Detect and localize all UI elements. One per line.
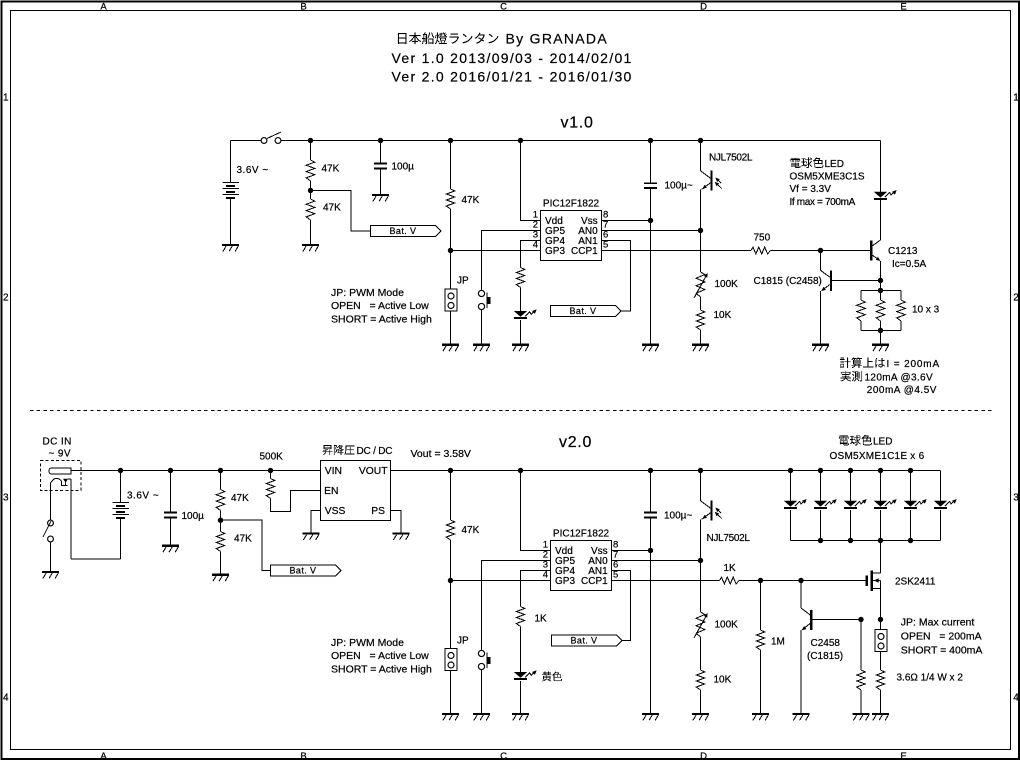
svg-text:2: 2 xyxy=(3,293,9,304)
svg-text:4: 4 xyxy=(1013,693,1019,704)
svg-text:E: E xyxy=(900,751,906,760)
svg-text:PS: PS xyxy=(371,506,385,517)
note text 電球色 LED (v1) xyxy=(790,157,844,170)
transistor Q3 C1815 current limit (v1) xyxy=(754,251,881,344)
wire jack tip to VIN rail (v2) xyxy=(71,470,320,472)
resistor 1K LED series (v2) xyxy=(516,607,547,673)
section heading v1.0 xyxy=(561,115,594,132)
svg-text:C: C xyxy=(500,2,507,13)
resistor 10K (v1) xyxy=(696,310,731,330)
resistor 47K upper divider (v2) xyxy=(216,471,249,521)
node junction GP3 net (v2) xyxy=(448,578,453,583)
resistor 750 base series (v1) xyxy=(751,233,771,254)
wire v1 +V rail xyxy=(281,140,881,142)
phototransistor Q4 NJL7502L (v2) xyxy=(701,471,751,613)
node junction rail/phototransistor (v1) xyxy=(698,138,703,143)
capacitor 100u~ (v1) xyxy=(644,141,693,344)
label 昇降圧 DC / DC xyxy=(323,445,393,457)
svg-text:A: A xyxy=(100,2,107,13)
svg-text:Bat. V: Bat. V xyxy=(570,306,597,316)
wire v2 VOUT rail xyxy=(391,470,941,472)
svg-text:120mA @3.6V: 120mA @3.6V xyxy=(865,373,933,384)
svg-text:SHORT = 400mA: SHORT = 400mA xyxy=(901,645,983,657)
IC U3 PIC12F1822 (v2) xyxy=(543,529,619,591)
svg-text:DC / DC: DC / DC xyxy=(357,446,393,457)
svg-text:SHORT = Active High: SHORT = Active High xyxy=(331,664,432,676)
title 日本船燈ランタン By GRANADA xyxy=(398,31,608,47)
node junction LED array top 1 (v2) xyxy=(788,468,793,473)
svg-text:47K: 47K xyxy=(462,195,480,206)
wire jack sleeve down (v2) xyxy=(70,479,72,559)
wire GP3 to PIC pin4 (v1) xyxy=(451,250,541,252)
ground (v2 indicator LED) xyxy=(512,714,529,720)
wire sleeve to battery minus (v2) xyxy=(71,558,121,560)
resistor 47K lower divider (v2) xyxy=(216,520,252,574)
wire VSS to ground (v2 dcdc) xyxy=(311,511,321,533)
node junction rail/battery (v2) xyxy=(118,468,123,473)
ground (v2 C2458 emitter) xyxy=(793,714,810,720)
LED indicator (v1) xyxy=(514,309,537,344)
node junction rail/C 100u (v1) xyxy=(378,138,383,143)
section heading v2.0 xyxy=(559,434,592,451)
jumper JP PWM mode (v2) xyxy=(445,581,469,714)
node junction rail/R 47K pullup (v2) xyxy=(448,468,453,473)
svg-text:v2.0: v2.0 xyxy=(559,434,592,451)
node junction LED array bottom x=850 (v2) xyxy=(848,538,853,543)
resistor 1K gate series (v2) xyxy=(720,563,740,584)
svg-text:47K: 47K xyxy=(234,534,252,545)
note text SHORT = Active High (v1) xyxy=(331,314,432,326)
svg-text:VOUT: VOUT xyxy=(359,466,388,477)
svg-text:10K: 10K xyxy=(714,310,732,321)
ground (v1 divider) xyxy=(302,245,319,251)
svg-text:2SK2411: 2SK2411 xyxy=(895,577,936,588)
wire PIC pin2 GP5 to pushbutton (v1) xyxy=(482,231,541,291)
capacitor 100u (v1) xyxy=(374,141,414,195)
node junction rail/divider (v2) xyxy=(218,468,223,473)
node junction sense resistor 1 (v2) xyxy=(858,617,863,622)
note text 計算上は I = 200mA xyxy=(840,357,940,370)
wire pot to 10K (v1) xyxy=(700,297,702,310)
battery BT2 3.6V (v2) xyxy=(112,471,159,560)
ground (v2 power switch) xyxy=(42,572,59,578)
svg-text:100K: 100K xyxy=(715,620,739,631)
svg-text:100µ~: 100µ~ xyxy=(665,181,693,192)
svg-text:VSS: VSS xyxy=(325,506,346,517)
note text 200mA @4.5V xyxy=(867,385,937,396)
ground (v1 100u cap) xyxy=(372,195,389,201)
resistor 3.6ohm #2 (v2) xyxy=(876,670,885,713)
note text 実測 120mA @3.6V xyxy=(841,371,933,384)
svg-text:I = 200mA: I = 200mA xyxy=(887,359,941,370)
ground (v2 sensor divider) xyxy=(692,714,709,720)
resistor 3.6ohm #1 (v2) xyxy=(857,620,866,714)
label Vout = 3.58V xyxy=(411,448,471,460)
note text SHORT = Active High (v2) xyxy=(331,664,432,676)
svg-text:100µ: 100µ xyxy=(392,161,415,172)
node junction LED array top 4 (v2) xyxy=(878,468,883,473)
wire 10K to ground (v2) xyxy=(700,690,702,713)
note text JP: PWM Mode (v2) xyxy=(331,637,404,649)
svg-text:47K: 47K xyxy=(231,493,249,504)
LED D4 array (v2) xyxy=(874,471,897,541)
svg-text:By GRANADA: By GRANADA xyxy=(506,31,608,47)
node junction AN0/photo emitter (v2) xyxy=(698,558,703,563)
svg-text:3.6Ω 1/4 W x 2: 3.6Ω 1/4 W x 2 xyxy=(897,673,964,684)
ground (v2 divider) xyxy=(212,575,229,581)
ground (v2 1M) xyxy=(752,714,769,720)
svg-text:5: 5 xyxy=(603,240,608,251)
IC U1 PIC12F1822 (v1) xyxy=(533,199,609,261)
svg-text:OSM5XME1C1E x 6: OSM5XME1C1E x 6 xyxy=(830,451,925,462)
svg-text:A: A xyxy=(100,751,107,760)
ground (v1 C1815 emitter) xyxy=(812,345,829,351)
wire array to MOSFET drain (v2) xyxy=(880,541,882,573)
wire CCP1 PIC pin5 (v1) xyxy=(602,250,752,252)
svg-text:10 x 3: 10 x 3 xyxy=(912,305,940,316)
note text DC IN xyxy=(43,437,72,448)
svg-text:C2458: C2458 xyxy=(811,638,841,649)
LED indicator 黄色 (v2) xyxy=(514,670,537,713)
svg-text:OPEN = Active Low: OPEN = Active Low xyxy=(331,300,429,312)
note text OPEN = Active Low (v2) xyxy=(331,650,429,662)
note text OPEN = 200mA (v2) xyxy=(901,631,982,643)
svg-text:C1213: C1213 xyxy=(888,246,918,257)
svg-text:GP3: GP3 xyxy=(555,576,575,587)
net label Bat.V (v1 to AN1) xyxy=(551,306,622,317)
switch SW1 power (v1) xyxy=(261,132,281,143)
svg-text:(C1815): (C1815) xyxy=(807,651,843,662)
svg-text:~ 9V: ~ 9V xyxy=(49,449,71,460)
wire AN0 PIC pin7 to photosensor (v1) xyxy=(602,230,701,232)
svg-text:4: 4 xyxy=(543,570,548,581)
wire 750 to transistor base (v1) xyxy=(771,250,871,252)
node junction AN0/photo emitter (v1) xyxy=(698,228,703,233)
resistor 47K upper divider (v1) xyxy=(306,141,339,191)
wire divider to Bat.V label (v1) xyxy=(311,191,371,231)
svg-text:Bat. V: Bat. V xyxy=(390,226,417,236)
wire Vdd PIC pin1 to rail (v1) xyxy=(521,141,541,221)
svg-text:1: 1 xyxy=(3,93,9,104)
ground (v1 battery) xyxy=(222,245,239,251)
svg-text:47K: 47K xyxy=(322,164,340,175)
svg-text:Bat. V: Bat. V xyxy=(290,566,317,576)
note text SHORT = 400mA (v2) xyxy=(901,645,983,657)
node junction base net (v1) xyxy=(818,248,823,253)
svg-text:5: 5 xyxy=(613,570,618,581)
node junction rail/R 47K (v1) xyxy=(308,138,313,143)
resistor 500K enable (v2) xyxy=(260,452,321,512)
ground (v1 jumper) xyxy=(442,345,459,351)
svg-text:200mA @4.5V: 200mA @4.5V xyxy=(867,385,937,396)
svg-text:4: 4 xyxy=(3,693,9,704)
node junction divider mid (v2) xyxy=(218,518,223,523)
node junction rail/phototransistor (v2) xyxy=(698,468,703,473)
ground (v2 dcdc VSS) xyxy=(303,534,320,540)
ground (v2 3.6ohm #1) xyxy=(853,714,870,720)
svg-text:C: C xyxy=(500,751,507,760)
node junction emitter sense top (v1) xyxy=(878,288,883,293)
node junction rail/C 100u~ (v1) xyxy=(648,138,653,143)
svg-text:B: B xyxy=(300,751,306,760)
node junction Vss/cap line (v2) xyxy=(648,548,653,553)
svg-text:500K: 500K xyxy=(260,452,284,463)
wire PIC pin2 GP5 to pushbutton (v2) xyxy=(482,561,551,651)
svg-text:2: 2 xyxy=(1013,293,1019,304)
svg-text:LED: LED xyxy=(873,437,892,448)
svg-text:VIN: VIN xyxy=(325,466,342,477)
svg-text:750: 750 xyxy=(754,233,771,244)
wire rail to power LED (v1) xyxy=(880,141,882,192)
node junction rail/C 100u (v2) xyxy=(168,468,173,473)
svg-text:SHORT = Active High: SHORT = Active High xyxy=(331,314,432,326)
net label Bat.V (v2 to AN1) xyxy=(552,635,623,646)
svg-text:100µ~: 100µ~ xyxy=(664,511,692,522)
wire Vss PIC pin8 (v1) xyxy=(602,220,651,222)
note text If max = 700mA xyxy=(790,197,856,208)
svg-text:CCP1: CCP1 xyxy=(581,576,608,587)
svg-text:GP3: GP3 xyxy=(545,246,565,257)
svg-text:Ver 2.0 2016/01/21 - 2016/01/3: Ver 2.0 2016/01/21 - 2016/01/30 xyxy=(392,69,633,85)
title Ver 1.0 2013/09/03 - 2014/02/01 xyxy=(392,50,633,66)
wire PS to ground (v2 dcdc) xyxy=(391,511,402,533)
LED D5 array (v2) xyxy=(904,471,927,541)
wire 1K to MOSFET gate (v2) xyxy=(739,580,866,582)
node junction C1213 emitter/C1815 base (v1) xyxy=(878,278,883,283)
svg-text:3: 3 xyxy=(3,493,9,504)
svg-text:47K: 47K xyxy=(323,203,341,214)
LED power 電球色 (v1) xyxy=(874,190,897,240)
node junction source/base sense (v2) xyxy=(878,617,883,622)
note text 電球色 LED (v2) xyxy=(839,435,893,448)
ground (v1 sensor divider) xyxy=(692,345,709,351)
transistor Q6 C2458 current limit (v2) xyxy=(801,581,861,714)
ground (v1 100u~ cap) xyxy=(642,345,659,351)
svg-text:Ic=0.5A: Ic=0.5A xyxy=(892,259,927,270)
phototransistor Q1 NJL7502L (v1) xyxy=(701,141,753,273)
note text ~ 9V xyxy=(49,449,71,460)
LED D2 array (v2) xyxy=(814,471,837,541)
svg-text:Ver 1.0 2013/09/03 - 2014/02/0: Ver 1.0 2013/09/03 - 2014/02/01 xyxy=(392,50,633,66)
note text OPEN = Active Low (v1) xyxy=(331,300,429,312)
capacitor 100u (v2) xyxy=(164,471,204,545)
wire pushbutton to ground (v2) xyxy=(481,669,483,713)
wire AN1 PIC pin6 to Bat.V (v1) xyxy=(602,241,631,312)
node junction C2458 collector (v2) xyxy=(798,578,803,583)
resistor LED series (v1) xyxy=(516,268,525,312)
ground (v1 indicator LED) xyxy=(512,345,529,351)
svg-text:10K: 10K xyxy=(714,675,732,686)
svg-text:DC IN: DC IN xyxy=(43,437,72,448)
ground (v2 jumper) xyxy=(442,714,459,720)
svg-text:4: 4 xyxy=(533,240,538,251)
wire PIC pin3 GP4 to LED resistor (v2) xyxy=(521,571,551,607)
resistor 47K lower divider (v1) xyxy=(306,191,341,245)
wire PIC pin3 GP4 to LED resistor (v1) xyxy=(521,241,541,268)
LED D3 array (v2) xyxy=(844,471,867,541)
svg-text:OPEN = 200mA: OPEN = 200mA xyxy=(901,631,982,643)
node junction sense bottom (v1) xyxy=(878,328,883,333)
resistor network 10 x 3 sense (v1) xyxy=(857,281,940,331)
wire pushbutton to ground (v1) xyxy=(481,309,483,344)
wire sense to ground (v1) xyxy=(880,331,882,344)
jumper JP max current (v2) xyxy=(875,620,887,671)
node junction rail/C 100u~ (v2) xyxy=(648,468,653,473)
ground (v2 100u~ cap) xyxy=(642,714,659,720)
potentiometer 100K light adjust (v1) xyxy=(694,272,738,298)
connector J1 DC jack (v2) xyxy=(41,461,82,491)
svg-text:Vout = 3.58V: Vout = 3.58V xyxy=(411,448,471,460)
node junction rail/R 47K pullup (v1) xyxy=(448,138,453,143)
node junction rail/R 500K (v2) xyxy=(268,468,273,473)
pushbutton switch (v1) xyxy=(478,290,490,309)
battery BT1 3.6V (v1) xyxy=(222,141,268,245)
transistor Q2 C1213 (v1) xyxy=(871,240,926,281)
svg-text:JP: JP xyxy=(457,636,469,647)
node junction LED array bottom x=880 (v2) xyxy=(878,538,883,543)
svg-text:JP: PWM Mode: JP: PWM Mode xyxy=(331,637,404,649)
svg-text:EN: EN xyxy=(324,486,338,497)
svg-text:3: 3 xyxy=(1013,493,1019,504)
resistor 47K pull-up GP3 (v1) xyxy=(446,141,479,251)
svg-text:D: D xyxy=(700,2,707,13)
note text OSM5XME3C1S xyxy=(790,171,865,182)
wire pot to 10K (v2) xyxy=(700,637,702,670)
node junction rail/Vdd (v1) xyxy=(518,138,523,143)
note text OSM5XME1C1E x 6 xyxy=(830,451,925,462)
svg-text:v1.0: v1.0 xyxy=(561,115,594,132)
wire GP3 to PIC pin4 (v2) xyxy=(451,580,551,582)
svg-text:1: 1 xyxy=(1013,93,1019,104)
net label Bat.V (v2 divider) xyxy=(271,565,342,576)
IC U2 boost-buck DC/DC (v2) xyxy=(321,461,391,521)
svg-text:If max = 700mA: If max = 700mA xyxy=(790,197,856,208)
svg-text:E: E xyxy=(900,2,906,13)
wire Vss PIC pin8 (v2) xyxy=(612,550,651,552)
svg-text:Bat. V: Bat. V xyxy=(571,636,598,646)
wire LED array bottom rail (v2) xyxy=(791,540,941,542)
node junction rail/Vdd (v2) xyxy=(518,468,523,473)
label 3.6ohm 1/4 W x 2 xyxy=(897,673,964,684)
resistor 10K (v2) xyxy=(696,670,731,690)
svg-text:PIC12F1822: PIC12F1822 xyxy=(553,529,610,540)
wire MOSFET source down (v2) xyxy=(880,589,882,620)
node junction LED array bottom x=910 (v2) xyxy=(908,538,913,543)
node junction Vss/cap line (v1) xyxy=(648,218,653,223)
svg-text:OPEN = Active Low: OPEN = Active Low xyxy=(331,650,429,662)
svg-text:CCP1: CCP1 xyxy=(571,246,598,257)
ground (v2 pushbutton) xyxy=(473,714,490,720)
svg-text:1K: 1K xyxy=(724,563,737,574)
svg-text:JP: JP xyxy=(457,276,469,287)
title Ver 2.0 2016/01/21 - 2016/01/30 xyxy=(392,69,633,85)
node junction LED array top 5 (v2) xyxy=(908,468,913,473)
note text JP: Max current (v2) xyxy=(901,617,975,629)
svg-text:B: B xyxy=(300,2,306,13)
ground (v2 100u cap) xyxy=(162,546,179,552)
label 黄色 yellow xyxy=(542,672,562,682)
node junction LED array bottom x=820 (v2) xyxy=(818,538,823,543)
net label Bat.V (v1 divider) xyxy=(371,225,442,236)
node junction divider mid (v1) xyxy=(308,188,313,193)
node junction GP3 net (v1) xyxy=(448,248,453,253)
node junction R 1M (v2) xyxy=(758,578,763,583)
capacitor 100u~ (v2) xyxy=(644,471,693,714)
svg-text:100µ: 100µ xyxy=(182,511,205,522)
section divider dashed line xyxy=(30,410,992,412)
jumper JP PWM mode (v1) xyxy=(445,251,469,344)
svg-text:3.6V ~: 3.6V ~ xyxy=(237,165,269,176)
wire divider to Bat.V label (v2) xyxy=(221,520,271,570)
svg-text:1M: 1M xyxy=(771,637,785,648)
svg-text:OSM5XME3C1S: OSM5XME3C1S xyxy=(790,171,865,182)
pushbutton switch (v2) xyxy=(478,650,490,669)
svg-text:D: D xyxy=(700,751,707,760)
svg-text:Vf = 3.3V: Vf = 3.3V xyxy=(790,184,832,195)
ground (v1 sense network) xyxy=(872,345,889,351)
resistor 1M gate pulldown (v2) xyxy=(756,581,785,714)
wire battery to switch (v1 rail) xyxy=(231,140,262,142)
svg-text:100K: 100K xyxy=(715,279,739,290)
LED D6 array (v2) xyxy=(934,471,957,541)
svg-text:3.6V ~: 3.6V ~ xyxy=(127,491,159,502)
wire Vdd PIC pin1 to rail (v2) xyxy=(521,471,551,551)
switch SW2 power toggle (v2) xyxy=(43,483,53,571)
ground (v2 dcdc PS) xyxy=(393,534,410,540)
ground (v1 pushbutton) xyxy=(473,345,490,351)
svg-text:47K: 47K xyxy=(462,525,480,536)
wire CCP1 PIC pin5 to gate (v2) xyxy=(612,580,720,582)
wire AN1 PIC pin6 to Bat.V (v2) xyxy=(612,571,631,641)
svg-text:JP: Max current: JP: Max current xyxy=(901,617,975,629)
potentiometer 100K light adjust (v2) xyxy=(694,612,738,638)
node junction LED array top 3 (v2) xyxy=(848,468,853,473)
note text Vf = 3.3V xyxy=(790,184,832,195)
MOSFET Q5 2SK2411 (v2) xyxy=(867,570,936,591)
svg-text:NJL7502L: NJL7502L xyxy=(709,153,753,164)
svg-text:LED: LED xyxy=(825,159,844,170)
LED D1 array (v2) xyxy=(784,471,807,541)
note text JP: PWM Mode (v1) xyxy=(331,287,404,299)
svg-text:PIC12F1822: PIC12F1822 xyxy=(543,199,600,210)
svg-text:JP: PWM Mode: JP: PWM Mode xyxy=(331,287,404,299)
wire AN0 PIC pin7 to photosensor (v2) xyxy=(612,560,701,562)
resistor 47K pull-up GP3 (v2) xyxy=(446,471,479,581)
ground (v2 3.6ohm #2) xyxy=(872,714,889,720)
svg-text:C1815 (C2458): C1815 (C2458) xyxy=(754,276,822,287)
node junction LED array top 2 (v2) xyxy=(818,468,823,473)
svg-text:NJL7502L: NJL7502L xyxy=(707,533,751,544)
wire 10K to ground (v1) xyxy=(700,330,702,344)
svg-text:1K: 1K xyxy=(535,614,548,625)
